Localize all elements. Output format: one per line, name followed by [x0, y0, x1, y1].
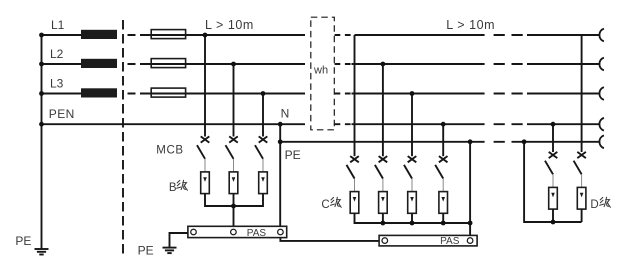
svg-text:wh: wh	[313, 65, 328, 77]
svg-text:C: C	[321, 199, 329, 211]
svg-text:L2: L2	[50, 47, 64, 61]
svg-text:B: B	[169, 182, 177, 194]
svg-text:L3: L3	[50, 76, 64, 90]
svg-text:L1: L1	[51, 18, 65, 32]
svg-text:PE: PE	[15, 234, 31, 248]
svg-text:D: D	[590, 199, 598, 211]
svg-text:N: N	[281, 107, 290, 121]
svg-text:PE: PE	[138, 243, 154, 257]
svg-text:PAS: PAS	[247, 228, 267, 239]
svg-text:MCB: MCB	[156, 145, 183, 157]
svg-text:PE: PE	[285, 148, 301, 162]
svg-text:L > 10m: L > 10m	[446, 18, 495, 32]
svg-text:PAS: PAS	[440, 236, 460, 247]
svg-text:L > 10m: L > 10m	[205, 18, 254, 32]
svg-text:PEN: PEN	[49, 107, 75, 121]
